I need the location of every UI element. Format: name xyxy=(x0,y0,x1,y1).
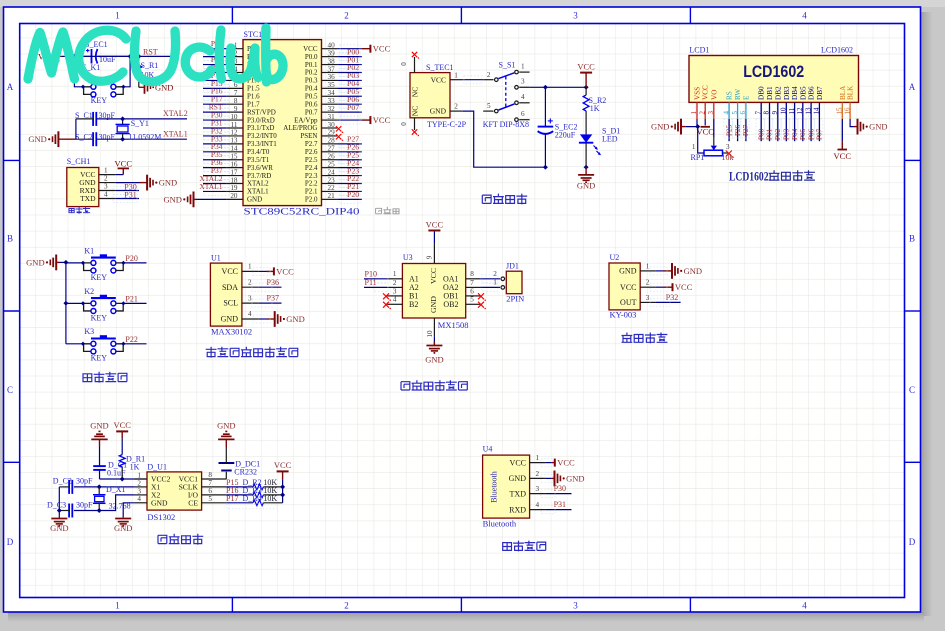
svg-text:3: 3 xyxy=(521,78,525,86)
lcd wire P25 xyxy=(728,119,730,141)
svg-text:3: 3 xyxy=(646,294,650,302)
svg-text:2: 2 xyxy=(344,601,349,611)
svg-text:6: 6 xyxy=(739,111,747,115)
svg-text:30: 30 xyxy=(328,121,336,129)
svg-text:MAX30102: MAX30102 xyxy=(211,327,252,337)
svg-text:1: 1 xyxy=(646,262,650,270)
svg-text:31: 31 xyxy=(328,113,336,121)
svg-text:A: A xyxy=(909,82,916,92)
svg-text:30pF: 30pF xyxy=(76,501,93,510)
S_S1 pin5 contact xyxy=(483,110,493,112)
svg-text:5: 5 xyxy=(487,102,491,110)
svg-text:GND: GND xyxy=(151,498,168,507)
svg-text:BLK: BLK xyxy=(847,85,855,100)
U2 GND port xyxy=(656,270,664,272)
wire P17 row xyxy=(226,502,253,504)
svg-text:E: E xyxy=(742,95,750,100)
U4 GND port xyxy=(546,477,552,479)
svg-text:P3.0/RxD: P3.0/RxD xyxy=(247,116,275,124)
svg-text:30pF: 30pF xyxy=(76,477,93,486)
svg-text:VCC: VCC xyxy=(303,45,318,53)
svg-text:P2.7: P2.7 xyxy=(305,140,318,148)
svg-text:12: 12 xyxy=(230,129,238,137)
battery D_DC1 xyxy=(225,472,227,479)
svg-text:6: 6 xyxy=(208,487,212,495)
svg-text:7: 7 xyxy=(470,279,474,287)
svg-text:7: 7 xyxy=(754,111,762,115)
svg-text:U2: U2 xyxy=(610,253,620,262)
svg-text:DB4: DB4 xyxy=(791,86,799,100)
svg-text:VCC: VCC xyxy=(113,420,131,430)
svg-text:DS1302: DS1302 xyxy=(147,512,175,522)
svg-text:4: 4 xyxy=(248,310,252,318)
svg-text:13: 13 xyxy=(804,107,812,115)
ground GND (lcd left) xyxy=(681,126,685,128)
svg-text:1: 1 xyxy=(137,471,141,479)
svg-text:25: 25 xyxy=(328,160,336,168)
svg-text:27: 27 xyxy=(328,145,336,153)
svg-text:GND: GND xyxy=(90,420,108,430)
svg-text:Bluetooth: Bluetooth xyxy=(483,519,517,529)
svg-text:GND: GND xyxy=(619,267,637,276)
U3 B2 noERC xyxy=(383,302,389,308)
svg-text:KFT DIP-8X8: KFT DIP-8X8 xyxy=(483,120,529,129)
wire P22 xyxy=(123,343,146,345)
svg-text:DB7: DB7 xyxy=(816,86,824,100)
svg-text:1: 1 xyxy=(104,167,108,175)
svg-text:39: 39 xyxy=(328,49,336,57)
svg-text:CE: CE xyxy=(188,498,198,507)
lcd wire P06 xyxy=(810,119,812,141)
svg-text:LCD1: LCD1 xyxy=(689,46,709,55)
lcd wire P26 xyxy=(737,119,739,141)
svg-text:P1.5: P1.5 xyxy=(247,85,260,93)
wire P31 (S_CH1) xyxy=(116,198,139,200)
svg-text:1: 1 xyxy=(521,63,525,71)
svg-text:NC: NC xyxy=(411,87,420,97)
svg-text:VCC: VCC xyxy=(373,115,391,125)
svg-text:S_R1: S_R1 xyxy=(141,61,159,70)
wire GND route to bottom rail xyxy=(462,111,545,167)
svg-text:8: 8 xyxy=(208,471,212,479)
svg-text:GND: GND xyxy=(566,473,584,483)
svg-text:D: D xyxy=(7,537,14,547)
U3 B1 noERC xyxy=(383,293,389,299)
power port VCC (S_CH1) xyxy=(116,174,124,176)
svg-text:32: 32 xyxy=(328,105,336,113)
svg-text:XTAL2: XTAL2 xyxy=(163,109,188,118)
wire X2 row xyxy=(74,495,135,511)
svg-text:2: 2 xyxy=(646,279,650,287)
svg-text:D_X1: D_X1 xyxy=(106,485,126,494)
wire to key left xyxy=(74,56,83,86)
svg-text:KEY: KEY xyxy=(91,273,108,282)
svg-text:2: 2 xyxy=(487,71,491,79)
svg-text:RST: RST xyxy=(143,48,158,57)
svg-text:33: 33 xyxy=(328,97,336,105)
svg-text:P0.0: P0.0 xyxy=(305,53,318,61)
svg-text:22: 22 xyxy=(328,184,336,192)
U1 GND port xyxy=(259,318,267,320)
page drop shadow xyxy=(921,12,933,616)
svg-text:GND: GND xyxy=(651,122,669,132)
download port caption 下载口 xyxy=(69,209,74,213)
ground GND (DS1302) xyxy=(122,517,124,518)
svg-text:GND: GND xyxy=(509,474,527,483)
svg-text:KEY: KEY xyxy=(91,313,108,322)
svg-text:XTAL1: XTAL1 xyxy=(199,182,222,191)
svg-text:P36: P36 xyxy=(267,278,279,287)
caption 直流电机电路 xyxy=(401,382,410,390)
ground GND (lcd right) xyxy=(854,126,858,128)
svg-text:7: 7 xyxy=(234,89,238,97)
S_TEC1 top pin noERC xyxy=(414,57,416,73)
svg-text:OUT: OUT xyxy=(620,298,637,307)
svg-text:GND: GND xyxy=(286,314,304,324)
S_S1 pin1 contact xyxy=(515,70,519,74)
svg-text:0: 0 xyxy=(400,62,408,66)
svg-text:U1: U1 xyxy=(211,254,221,263)
svg-text:1: 1 xyxy=(692,143,696,151)
svg-text:2PIN: 2PIN xyxy=(506,294,524,304)
U4 VCC port xyxy=(546,462,552,464)
svg-text:D_C3: D_C3 xyxy=(47,501,66,510)
svg-text:P17: P17 xyxy=(226,494,238,503)
svg-text:GND: GND xyxy=(425,355,443,365)
svg-text:6: 6 xyxy=(521,110,525,118)
svg-text:STC1: STC1 xyxy=(244,30,263,39)
svg-text:P2.4: P2.4 xyxy=(305,164,318,172)
svg-text:1K: 1K xyxy=(590,104,600,113)
svg-text:P3.6/WR: P3.6/WR xyxy=(247,164,273,172)
svg-text:8: 8 xyxy=(763,111,771,115)
svg-text:40: 40 xyxy=(328,42,336,50)
svg-text:4: 4 xyxy=(802,601,807,611)
svg-text:P3.3/INT1: P3.3/INT1 xyxy=(247,140,277,148)
svg-text:U3: U3 xyxy=(403,253,413,262)
svg-text:1K: 1K xyxy=(130,463,140,472)
svg-text:2: 2 xyxy=(493,270,497,278)
svg-text:12: 12 xyxy=(796,107,804,115)
svg-text:K3: K3 xyxy=(84,327,94,336)
svg-text:MX1508: MX1508 xyxy=(438,320,469,330)
svg-text:3: 3 xyxy=(573,601,578,611)
svg-text:VCC: VCC xyxy=(115,159,133,169)
svg-text:B: B xyxy=(7,234,13,244)
lcd wire P02 xyxy=(777,119,779,141)
svg-text:VCC: VCC xyxy=(426,219,444,229)
wire P16 row xyxy=(226,494,253,496)
lcd pin3 VO wire xyxy=(713,119,715,137)
svg-text:DB5: DB5 xyxy=(799,86,807,100)
no-ERC mark pin 29 xyxy=(336,134,341,139)
ground GND (crystal clock) xyxy=(58,517,60,520)
svg-text:220uF: 220uF xyxy=(555,131,576,140)
wire P20 xyxy=(123,262,146,264)
ground GND (S_CH1 pin2) xyxy=(116,182,140,184)
lcd pin16 BLK to GND xyxy=(850,119,854,127)
svg-text:1: 1 xyxy=(536,454,540,462)
svg-text:VCC: VCC xyxy=(834,151,852,161)
svg-text:DB6: DB6 xyxy=(808,86,816,100)
svg-text:B: B xyxy=(909,234,915,244)
wire X1 row xyxy=(74,486,135,488)
svg-text:35: 35 xyxy=(328,81,336,89)
lcd pin1 VSS wire to GND xyxy=(685,119,697,127)
svg-text:D_U1: D_U1 xyxy=(147,463,167,472)
svg-text:23: 23 xyxy=(328,176,336,184)
svg-text:P3.4/T0: P3.4/T0 xyxy=(247,148,270,156)
U1 wire P36 xyxy=(259,286,282,288)
svg-text:P2.1: P2.1 xyxy=(305,188,318,196)
svg-text:XTAL2: XTAL2 xyxy=(247,180,269,188)
zone tick marks xyxy=(231,7,233,24)
svg-text:VCC: VCC xyxy=(510,458,526,467)
svg-text:4: 4 xyxy=(393,296,397,304)
svg-text:4: 4 xyxy=(802,11,807,21)
svg-text:P0.4: P0.4 xyxy=(305,85,318,93)
svg-text:2: 2 xyxy=(104,175,108,183)
svg-text:11.0592M: 11.0592M xyxy=(129,133,162,142)
svg-text:10: 10 xyxy=(426,330,434,338)
svg-text:VCC: VCC xyxy=(276,266,294,276)
svg-text:D: D xyxy=(909,537,916,547)
svg-text:DB0: DB0 xyxy=(758,86,766,100)
U2 wire P32 xyxy=(656,301,681,303)
U1 wire P37 xyxy=(259,302,282,304)
wire reset top xyxy=(62,55,130,57)
junction reset-left xyxy=(72,54,77,59)
svg-text:GND: GND xyxy=(50,523,68,533)
ground GND (power circuit) xyxy=(585,167,587,175)
svg-text:7: 7 xyxy=(208,479,212,487)
caption 心率血氧检测模块 xyxy=(206,347,217,358)
svg-text:2: 2 xyxy=(248,278,252,286)
svg-text:SCL: SCL xyxy=(223,299,238,308)
svg-text:VCC: VCC xyxy=(222,267,238,276)
svg-text:3: 3 xyxy=(726,143,730,151)
svg-text:17: 17 xyxy=(230,168,238,176)
svg-text:1: 1 xyxy=(454,71,458,79)
svg-text:2: 2 xyxy=(454,103,458,111)
svg-text:2: 2 xyxy=(536,470,540,478)
svg-text:GND: GND xyxy=(28,134,46,144)
wire reset to RST label xyxy=(130,55,171,57)
svg-text:GND: GND xyxy=(429,296,438,313)
svg-text:0.1uF: 0.1uF xyxy=(107,469,126,478)
svg-text:VCC: VCC xyxy=(274,460,292,470)
S_S1 pin4 contact xyxy=(515,101,519,105)
svg-text:3: 3 xyxy=(573,11,578,21)
svg-text:P0.1: P0.1 xyxy=(305,61,318,69)
svg-text:P07: P07 xyxy=(347,103,359,112)
svg-text:1: 1 xyxy=(393,270,397,278)
svg-text:VCC: VCC xyxy=(429,268,438,284)
svg-text:P0.5: P0.5 xyxy=(305,92,318,100)
svg-text:P2.0: P2.0 xyxy=(305,196,318,204)
svg-text:LCD1602: LCD1602 xyxy=(729,170,769,184)
svg-text:10k: 10k xyxy=(722,153,734,162)
svg-text:13: 13 xyxy=(230,137,238,145)
svg-text:0: 0 xyxy=(400,122,408,126)
svg-text:15: 15 xyxy=(836,107,844,115)
svg-text:26: 26 xyxy=(328,153,336,161)
svg-text:3: 3 xyxy=(104,183,108,191)
svg-text:S_Y1: S_Y1 xyxy=(131,119,149,128)
capacitor S_EC2 xyxy=(544,87,546,126)
svg-text:GND: GND xyxy=(163,194,181,204)
lcd wire P01 xyxy=(769,119,771,141)
svg-text:VCC: VCC xyxy=(620,283,636,292)
svg-text:VCC: VCC xyxy=(702,85,710,100)
svg-text:GND: GND xyxy=(221,315,239,324)
svg-text:VCC: VCC xyxy=(675,282,693,292)
wire P30 (S_CH1) xyxy=(116,190,139,192)
S_S1 pin6 contact xyxy=(515,118,519,122)
svg-text:VCC: VCC xyxy=(373,44,391,54)
U3 pin9 VCC xyxy=(433,243,435,263)
svg-text:BLA: BLA xyxy=(839,85,847,100)
svg-text:P2.6: P2.6 xyxy=(305,148,318,156)
svg-text:GND: GND xyxy=(26,257,44,267)
U2 VCC port xyxy=(656,286,664,288)
svg-text:P1.7: P1.7 xyxy=(247,100,260,108)
S_TEC1 bottom pin noERC xyxy=(414,118,416,130)
svg-text:K1: K1 xyxy=(84,246,94,255)
U3 OB2 noERC xyxy=(478,302,484,308)
svg-text:C: C xyxy=(909,385,915,395)
svg-text:TXD: TXD xyxy=(80,194,96,203)
S_S1 gang dashed link xyxy=(505,77,507,108)
svg-text:8: 8 xyxy=(470,270,474,278)
svg-text:P3.2/INT0: P3.2/INT0 xyxy=(247,132,277,140)
svg-text:28: 28 xyxy=(328,137,336,145)
svg-text:P37: P37 xyxy=(267,294,279,303)
svg-text:11: 11 xyxy=(788,107,796,114)
lcd body xyxy=(689,56,859,103)
svg-text:9: 9 xyxy=(426,255,434,259)
svg-text:P11: P11 xyxy=(365,278,377,287)
wire R2 to LED xyxy=(585,111,587,134)
svg-text:VSS: VSS xyxy=(694,87,702,100)
svg-text:DB3: DB3 xyxy=(783,86,791,100)
lcd wire P05 xyxy=(802,119,804,141)
svg-text:16: 16 xyxy=(230,160,238,168)
svg-text:24: 24 xyxy=(328,168,336,176)
svg-text:RST/VPD: RST/VPD xyxy=(247,108,276,116)
S_TEC1 pin1 wire xyxy=(450,79,462,81)
svg-text:2: 2 xyxy=(698,111,706,115)
svg-text:B2: B2 xyxy=(409,300,418,309)
logo MCUclub xyxy=(28,28,283,82)
ground GND (crystal) xyxy=(58,138,76,140)
RP1 pin3 stub xyxy=(723,152,729,154)
svg-text:C: C xyxy=(7,385,13,395)
wire XTAL2 xyxy=(96,118,187,120)
caption 时钟模块 xyxy=(158,535,167,543)
svg-text:GND: GND xyxy=(430,107,447,116)
svg-text:P2.3: P2.3 xyxy=(305,172,318,180)
svg-text:3: 3 xyxy=(707,111,715,115)
svg-text:K2: K2 xyxy=(84,287,94,296)
svg-text:5: 5 xyxy=(208,495,212,503)
svg-text:P22: P22 xyxy=(125,335,137,344)
svg-text:A: A xyxy=(7,82,14,92)
lcd pin15 BLA to VCC xyxy=(841,119,843,142)
wire to key right xyxy=(121,56,130,86)
svg-text:P3.5/T1: P3.5/T1 xyxy=(247,156,270,164)
S_S1 pin2 contact xyxy=(483,79,493,81)
svg-text:VO: VO xyxy=(710,90,718,100)
svg-text:P30: P30 xyxy=(554,484,566,493)
svg-text:29: 29 xyxy=(328,129,336,137)
svg-text:2: 2 xyxy=(344,11,349,21)
svg-text:4: 4 xyxy=(104,190,108,198)
U3 wire P11 xyxy=(364,286,387,288)
svg-text:PSEN: PSEN xyxy=(300,132,317,140)
svg-text:2: 2 xyxy=(137,479,141,487)
lcd wire P07 xyxy=(818,119,820,141)
svg-text:16: 16 xyxy=(843,107,851,115)
svg-text:S_S1: S_S1 xyxy=(499,61,516,70)
S_S1 pin3 contact xyxy=(515,86,519,90)
S_TEC1 pin2 wire xyxy=(450,110,462,112)
svg-text:18: 18 xyxy=(230,176,238,184)
svg-text:P32: P32 xyxy=(666,293,678,302)
svg-text:LED: LED xyxy=(602,135,618,144)
wire P21 xyxy=(123,302,146,304)
U3 pin10 GND xyxy=(433,318,435,336)
svg-text:EA/Vpp: EA/Vpp xyxy=(294,116,318,124)
svg-text:4: 4 xyxy=(137,495,141,503)
svg-text:1: 1 xyxy=(493,279,497,287)
svg-text:P3.7/RD: P3.7/RD xyxy=(247,172,271,180)
S_S1 lever pole1 xyxy=(499,73,515,79)
svg-text:XTAL1: XTAL1 xyxy=(247,188,269,196)
svg-text:15: 15 xyxy=(230,153,238,161)
potentiometer RP1 xyxy=(711,146,717,151)
svg-text:LCD1602: LCD1602 xyxy=(743,63,804,81)
svg-text:3: 3 xyxy=(393,287,397,295)
caption 蓝牙模块 xyxy=(503,543,512,551)
svg-text:4: 4 xyxy=(521,93,525,101)
svg-text:P31: P31 xyxy=(554,500,566,509)
svg-text:5: 5 xyxy=(731,111,739,115)
ground GND (buttons) xyxy=(56,261,59,263)
svg-text:GND: GND xyxy=(869,122,887,132)
svg-text:4: 4 xyxy=(536,501,540,509)
lcd pin2 VCC port xyxy=(704,119,706,125)
svg-text:VCC: VCC xyxy=(431,75,446,84)
svg-text:8: 8 xyxy=(234,97,238,105)
svg-text:P0.6: P0.6 xyxy=(305,100,318,108)
svg-text:STC89C52RC_DIP40: STC89C52RC_DIP40 xyxy=(244,207,361,217)
U3 OB1 noERC xyxy=(478,293,484,299)
svg-text:14: 14 xyxy=(230,145,238,153)
svg-text:10: 10 xyxy=(780,107,788,115)
U3 OA2 wire to JD1 xyxy=(480,286,500,288)
svg-text:SDA: SDA xyxy=(222,283,238,292)
svg-text:P1.6: P1.6 xyxy=(247,92,260,100)
svg-text:P21: P21 xyxy=(125,294,137,303)
wire S1 pin3 to VCC rail xyxy=(530,86,587,88)
wire LED to GND xyxy=(585,143,587,168)
svg-text:RS: RS xyxy=(726,91,734,100)
svg-text:34: 34 xyxy=(328,89,336,97)
svg-text:6: 6 xyxy=(470,287,474,295)
svg-text:1: 1 xyxy=(690,111,698,115)
svg-text:TYPE-C-2P: TYPE-C-2P xyxy=(427,120,467,129)
